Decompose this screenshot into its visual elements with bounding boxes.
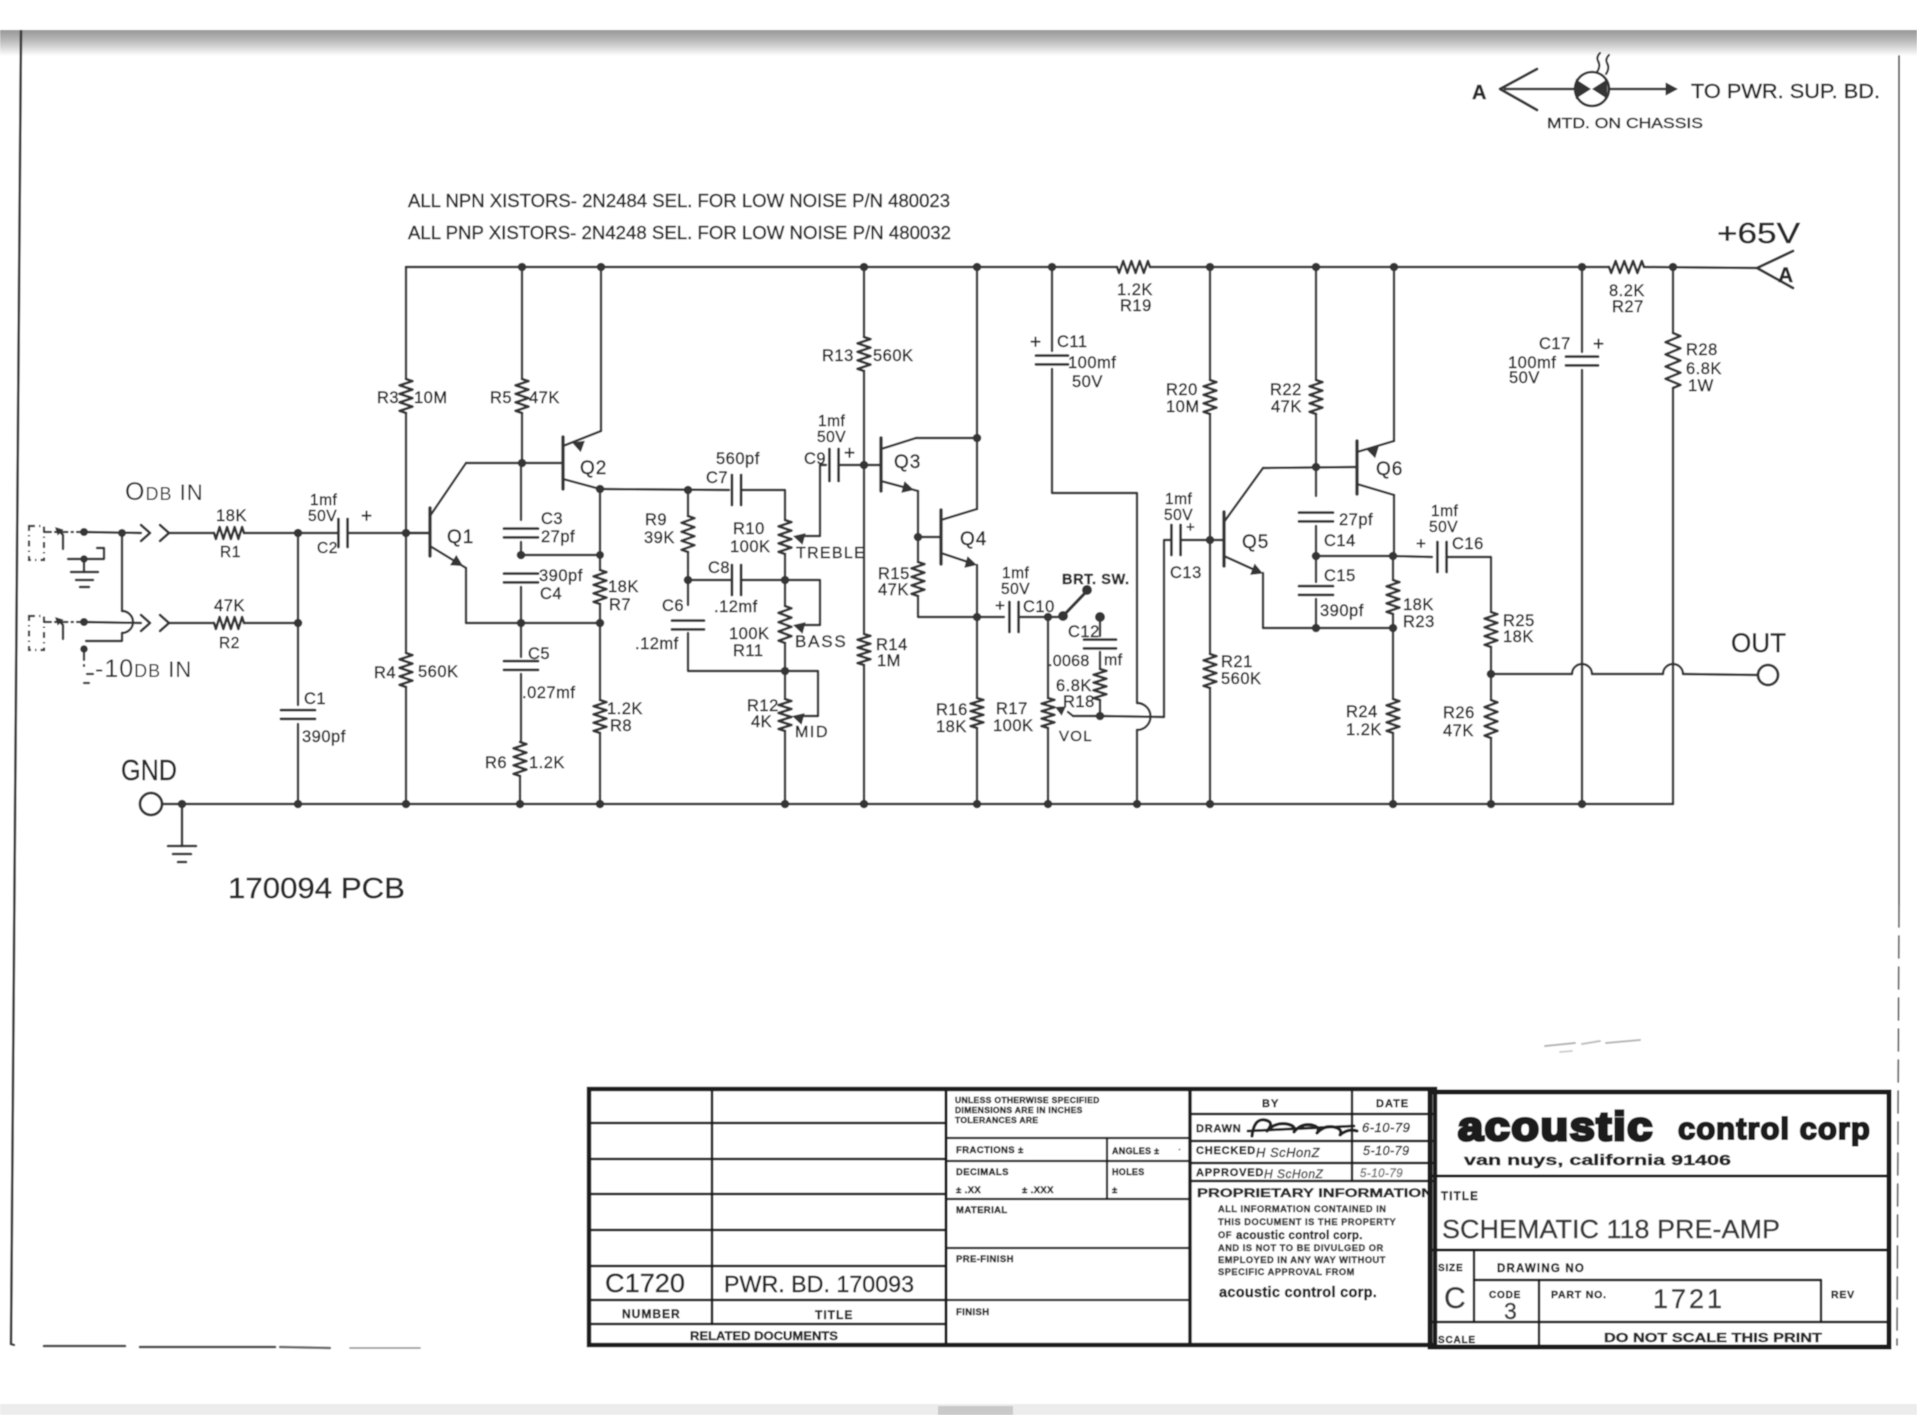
svg-text:MTD. ON CHASSIS: MTD. ON CHASSIS xyxy=(1547,116,1703,132)
svg-text:SPECIFIC APPROVAL FROM: SPECIFIC APPROVAL FROM xyxy=(1218,1267,1355,1277)
svg-text:C14: C14 xyxy=(1324,532,1356,550)
wire bus to R13 xyxy=(863,267,865,337)
svg-text:R3: R3 xyxy=(377,389,399,407)
label R13 value 560K xyxy=(873,347,914,365)
wire Q2 collector to C7/R9 xyxy=(600,489,729,490)
label R8 value 1.2K xyxy=(607,700,643,718)
svg-text:control corp: control corp xyxy=(1678,1111,1871,1146)
resistor R24 (1.2K) xyxy=(1387,699,1400,733)
label R11 value 100K xyxy=(729,625,770,643)
capacitor C17 (100mf) xyxy=(1566,357,1598,366)
svg-text:100K: 100K xyxy=(993,717,1034,735)
svg-text:.0068: .0068 xyxy=(1048,653,1090,670)
label R1 xyxy=(220,544,241,561)
by-date row 3 xyxy=(1190,1162,1435,1164)
wire C3 top to Q2 base node xyxy=(520,463,522,520)
svg-text:C13: C13 xyxy=(1170,564,1202,582)
net +65V bus segment right xyxy=(1644,267,1757,268)
svg-text:TITLE: TITLE xyxy=(815,1308,853,1322)
svg-text:5-10-79: 5-10-79 xyxy=(1360,1168,1403,1180)
junction Q2 collector node xyxy=(596,485,605,494)
svg-text:47K: 47K xyxy=(1443,722,1474,740)
OUT terminal circle xyxy=(1758,665,1778,685)
junction ground bus / R26 xyxy=(1487,800,1496,809)
label Q3 xyxy=(894,452,921,473)
svg-text:39K: 39K xyxy=(644,529,675,547)
svg-text:R22: R22 xyxy=(1270,381,1302,399)
label C1 value 390pf xyxy=(302,728,346,746)
label R10 value 100K xyxy=(730,538,771,556)
label Q2 xyxy=(580,458,607,479)
wire riser to C13 xyxy=(1164,540,1171,717)
wire R10 to C8 node xyxy=(784,554,786,580)
LED DS1 mtd on chassis xyxy=(1575,72,1609,106)
wire R15 top xyxy=(917,537,919,562)
title block divider col3 xyxy=(1188,1089,1192,1345)
label C11 polarity + xyxy=(1030,332,1041,353)
label R27 xyxy=(1612,298,1644,316)
jack J2 body (-10db input) xyxy=(29,616,44,650)
wire bus to Q3 collector node xyxy=(976,267,978,438)
svg-text:H ScHonZ: H ScHonZ xyxy=(1264,1167,1324,1181)
label R21 value 560K xyxy=(1221,670,1262,688)
wire R23 top xyxy=(1392,556,1394,580)
junction C10 / R17 top xyxy=(1044,613,1053,622)
resistor R26 (47K) xyxy=(1485,700,1498,738)
junction top bus / C17 xyxy=(1578,263,1587,272)
svg-text:EMPLOYED IN ANY WAY WITHOUT: EMPLOYED IN ANY WAY WITHOUT xyxy=(1218,1255,1386,1265)
wire Q5 base node to R21 xyxy=(1209,540,1211,654)
label BRT. SW. xyxy=(1062,572,1130,588)
svg-text:± .XX: ± .XX xyxy=(956,1185,981,1196)
svg-text:50V: 50V xyxy=(817,429,846,446)
label R13 xyxy=(822,347,854,365)
wire bus to R28 xyxy=(1672,267,1674,333)
label OUT xyxy=(1731,628,1786,658)
wire C7 to R10 xyxy=(741,490,785,520)
junction Q5 base / R20 / R21 xyxy=(1206,536,1215,545)
capacitor C9 (1mf) xyxy=(829,449,838,481)
svg-text:390pf: 390pf xyxy=(302,728,346,746)
label R28 xyxy=(1686,341,1718,359)
svg-text:+65V: +65V xyxy=(1717,218,1801,250)
signature drawn (S Race) xyxy=(1248,1120,1357,1136)
resistor R6 (1.2K) xyxy=(514,742,527,776)
resistor R5 (47K) xyxy=(516,379,529,413)
title block left row line 2 xyxy=(589,1158,946,1160)
label TITLE (right block) xyxy=(1441,1191,1479,1203)
svg-text:Q5: Q5 xyxy=(1242,532,1269,553)
label C17 value 100mf xyxy=(1508,354,1556,372)
svg-text:47K: 47K xyxy=(214,597,245,615)
tolerance block line under header xyxy=(946,1137,1188,1139)
resistor R18 (6.8K) xyxy=(1094,669,1107,700)
svg-text:5-10-79: 5-10-79 xyxy=(1363,1144,1410,1158)
junction input link node xyxy=(118,529,126,537)
label C16 polarity + xyxy=(1416,534,1426,553)
junction R1/R2/C1 node xyxy=(294,529,303,538)
svg-text:+: + xyxy=(1186,519,1195,536)
label C11 value 50V xyxy=(1072,373,1103,391)
junction Q3 collector / bus drop xyxy=(973,434,982,443)
wire switch to C12 xyxy=(1099,617,1101,636)
label C12 value .0068 xyxy=(1048,653,1090,670)
svg-text:TREBLE: TREBLE xyxy=(796,545,866,562)
capacitor C6 (.12mf) xyxy=(672,621,704,630)
label FINISH xyxy=(956,1307,990,1318)
label R21 xyxy=(1221,653,1253,671)
svg-text:6.8K: 6.8K xyxy=(1686,360,1722,378)
logo control corp xyxy=(1678,1111,1871,1146)
capacitor C13 (1mf) xyxy=(1171,525,1180,555)
junction Q4 emitter / R16 / C10 xyxy=(973,613,982,622)
label R18 xyxy=(1063,693,1095,711)
label C2 value 1mf xyxy=(310,492,338,509)
wire C4 node to R7 line xyxy=(521,554,600,556)
label date checked 5-10-79 xyxy=(1363,1144,1410,1158)
label C4 value 390pf xyxy=(539,567,583,585)
label C13 value 1mf xyxy=(1165,491,1193,508)
label SCALE xyxy=(1438,1335,1476,1346)
svg-text:HOLES: HOLES xyxy=(1112,1167,1145,1177)
svg-text:18K: 18K xyxy=(608,578,639,596)
junction ground bus / R8 xyxy=(596,800,605,809)
label PROPRIETARY INFORMATION xyxy=(1197,1186,1433,1200)
label R22 xyxy=(1270,381,1302,399)
wire C2 to Q1 base xyxy=(348,532,429,534)
svg-text:DO NOT SCALE THIS PRINT: DO NOT SCALE THIS PRINT xyxy=(1604,1330,1822,1345)
label R15 value 47K xyxy=(878,581,909,599)
svg-text:PWR. BD. 170093: PWR. BD. 170093 xyxy=(724,1271,914,1297)
svg-text:6-10-79: 6-10-79 xyxy=(1362,1120,1410,1135)
svg-text:R19: R19 xyxy=(1120,297,1152,315)
svg-text:AND IS NOT TO BE DIVULGED OR: AND IS NOT TO BE DIVULGED OR xyxy=(1218,1243,1384,1253)
svg-text:NUMBER: NUMBER xyxy=(622,1307,681,1321)
svg-text:DECIMALS: DECIMALS xyxy=(956,1167,1009,1178)
wire VOL wiper to C13 riser xyxy=(1100,716,1164,717)
junction J1 sleeve xyxy=(80,555,88,563)
svg-text:1mf: 1mf xyxy=(818,413,846,430)
label HOLES xyxy=(1112,1167,1145,1177)
transistor Q6 (PNP 2N4248) xyxy=(1357,441,1394,495)
wire R22 to collector node xyxy=(1315,414,1317,467)
svg-text:FRACTIONS ±: FRACTIONS ± xyxy=(956,1145,1024,1156)
wire chevrons2 to R2 xyxy=(169,622,214,624)
wire R21 to ground bus xyxy=(1209,688,1211,804)
svg-text:BASS: BASS xyxy=(795,632,848,651)
R12 wiper arm xyxy=(785,671,818,725)
svg-text:+: + xyxy=(844,443,855,464)
label SIZE xyxy=(1438,1263,1463,1274)
label R23 xyxy=(1403,613,1435,631)
wire R16 to ground bus xyxy=(976,728,978,804)
label APPROVED xyxy=(1196,1167,1264,1179)
label TREBLE xyxy=(796,545,866,562)
signature checked (H Schunz) xyxy=(1256,1145,1321,1160)
svg-text:R10: R10 xyxy=(733,520,765,538)
svg-text:R17: R17 xyxy=(996,700,1028,718)
svg-text:R1: R1 xyxy=(220,544,241,561)
svg-text:+: + xyxy=(1030,332,1041,353)
wire J2 tip (dash-dot) xyxy=(44,621,84,623)
svg-text:OF: OF xyxy=(1218,1230,1232,1240)
svg-text:C: C xyxy=(1444,1282,1466,1315)
junction ground bus / R21 xyxy=(1206,800,1215,809)
label date drawn 6-10-79 xyxy=(1362,1120,1410,1135)
capacitor C8 (.12mf) xyxy=(732,565,741,595)
label MID xyxy=(795,724,829,741)
svg-text:50V: 50V xyxy=(1072,373,1103,391)
wire R1 to C2 node xyxy=(244,532,338,534)
svg-text:SIZE: SIZE xyxy=(1438,1263,1463,1274)
label R26 value 47K xyxy=(1443,722,1474,740)
by-date row 1 xyxy=(1190,1113,1435,1115)
resistor R8 (1.2K) xyxy=(594,700,607,733)
wire R11 top xyxy=(784,580,786,606)
svg-text:REV: REV xyxy=(1831,1289,1855,1301)
svg-text:1.2K: 1.2K xyxy=(1346,721,1382,739)
svg-text:1M: 1M xyxy=(877,652,901,670)
svg-text:PROPRIETARY INFORMATION: PROPRIETARY INFORMATION xyxy=(1197,1186,1433,1200)
title block outer border (right) xyxy=(1430,1092,1889,1347)
label R16 xyxy=(936,701,968,719)
resistor R22 (47K) xyxy=(1310,380,1323,414)
svg-text:C7: C7 xyxy=(706,469,728,487)
label C3 value 27pf xyxy=(541,528,575,546)
label R10 xyxy=(733,520,765,538)
junction ground bus / C1 xyxy=(294,800,303,809)
resistor R16 (18K) xyxy=(971,698,984,728)
label R12 xyxy=(747,697,779,715)
label date approved xyxy=(1360,1168,1403,1180)
junction R22 / Q5 collector xyxy=(1312,463,1321,472)
svg-text:C9: C9 xyxy=(804,450,826,468)
right block divider rev xyxy=(1820,1280,1822,1322)
label ANGLES xyxy=(1112,1144,1181,1156)
svg-text:ANGLES ±: ANGLES ± xyxy=(1112,1146,1159,1156)
svg-text:MATERIAL: MATERIAL xyxy=(956,1205,1008,1216)
wire Q1 collector to Q2 base xyxy=(466,462,563,464)
junction ground bus / R24 xyxy=(1389,800,1398,809)
resistor R1 (18K) xyxy=(214,527,244,539)
capacitor C3 (27pf) xyxy=(504,529,538,538)
svg-text:10M: 10M xyxy=(414,389,448,407)
capacitor C4 (390pf) xyxy=(504,574,538,583)
capacitor C14 (27pf) xyxy=(1299,513,1333,522)
wire J1 tip (dash-dot) xyxy=(44,531,84,533)
label GND xyxy=(121,755,177,787)
label C17 value 50V xyxy=(1509,369,1540,387)
label PART NO. xyxy=(1551,1289,1607,1301)
svg-text:+: + xyxy=(1416,534,1426,553)
svg-text:1.2K: 1.2K xyxy=(529,754,565,772)
svg-text:R24: R24 xyxy=(1346,703,1378,721)
wire bus corner to R3 xyxy=(405,267,407,379)
wire R17 pot body xyxy=(1047,617,1049,698)
title block left row line 5 xyxy=(589,1265,946,1267)
wire C4 to emitter wire xyxy=(520,587,522,623)
svg-text:1mf: 1mf xyxy=(1431,503,1459,520)
resistor R13 (560K) xyxy=(858,337,871,371)
svg-text:4K: 4K xyxy=(751,713,772,731)
svg-text:±: ± xyxy=(1112,1185,1117,1196)
signature approved xyxy=(1264,1167,1324,1181)
wire bus to C17 xyxy=(1581,267,1583,352)
label BY xyxy=(1262,1098,1279,1110)
wire OUT (hops over C17 and R28 lines) xyxy=(1491,664,1758,675)
label C17 xyxy=(1539,335,1571,353)
potentiometer R11 (100K BASS) xyxy=(779,606,792,643)
junction R9/C8 node xyxy=(684,576,693,585)
label C10 polarity + xyxy=(995,596,1005,615)
label part no 1721 xyxy=(1653,1284,1725,1314)
label C16 value 1mf xyxy=(1431,503,1459,520)
wire C15 node to Q6 collector line xyxy=(1316,555,1393,557)
label R11 xyxy=(733,642,764,660)
junction ground bus / C11 return xyxy=(1133,800,1142,809)
svg-text:18K: 18K xyxy=(1503,628,1534,646)
jack J2 tip contact xyxy=(55,617,64,639)
capacitor C12 (.0068mf) xyxy=(1084,640,1116,649)
potentiometer R17 (100K VOL) xyxy=(1042,698,1055,728)
wire R6 to ground bus xyxy=(519,776,521,804)
svg-text:H ScHonZ: H ScHonZ xyxy=(1256,1145,1321,1160)
label BASS xyxy=(795,632,848,651)
wire R12 top xyxy=(784,671,786,699)
label C16 value 50V xyxy=(1429,519,1458,536)
label MATERIAL xyxy=(956,1205,1008,1216)
resistor R19 (1.2K in bus) xyxy=(1117,261,1150,273)
capacitor C16 (1mf) xyxy=(1437,542,1446,572)
label R25 value 18K xyxy=(1503,628,1534,646)
resistor R7 (18K) xyxy=(594,570,607,604)
resistor R20 (10M) xyxy=(1204,380,1217,414)
svg-text:CHECKED: CHECKED xyxy=(1196,1145,1256,1157)
svg-text:UNLESS OTHERWISE SPECIFIED: UNLESS OTHERWISE SPECIFIED xyxy=(955,1095,1100,1105)
svg-text:ALL INFORMATION CONTAINED IN: ALL INFORMATION CONTAINED IN xyxy=(1218,1204,1386,1214)
junction ground bus / R12 xyxy=(781,800,790,809)
R10 wiper arm to C9 xyxy=(793,465,826,545)
title block divider col1 xyxy=(711,1089,714,1324)
label C7 value 560pf xyxy=(716,450,760,468)
by-date divider xyxy=(1351,1089,1353,1181)
svg-text:.12mf: .12mf xyxy=(635,635,679,653)
wire R5 to Q2 base node xyxy=(521,413,523,463)
label CODE xyxy=(1489,1290,1521,1301)
R17 wiper arm xyxy=(1055,706,1100,716)
GND terminal circle xyxy=(140,793,162,815)
wire R3 to Q1 base node xyxy=(405,413,407,533)
svg-text:C2: C2 xyxy=(317,540,338,557)
capacitor C5 (.027mf) xyxy=(504,661,538,670)
tolerance block vertical divider xyxy=(1106,1138,1108,1199)
wire node to R8 xyxy=(599,623,601,700)
wire C16 left xyxy=(1393,556,1432,557)
label C1720 xyxy=(605,1268,685,1298)
junction top bus / R28 xyxy=(1669,263,1678,272)
svg-text:R11: R11 xyxy=(733,642,764,660)
svg-text:18K: 18K xyxy=(936,718,967,736)
svg-text:acoustic control corp.: acoustic control corp. xyxy=(1219,1285,1377,1301)
label R8 xyxy=(610,717,632,735)
label code 3 xyxy=(1504,1298,1517,1324)
note all PNP transistors xyxy=(408,222,951,243)
label NUMBER xyxy=(622,1307,681,1321)
net +65V bus segment mid xyxy=(1150,266,1609,269)
svg-text:1mf: 1mf xyxy=(1002,565,1030,582)
junction J1 tip node xyxy=(80,528,88,536)
ground symbol at J1 sleeve xyxy=(71,559,98,587)
svg-text:± .XXX: ± .XXX xyxy=(1022,1185,1054,1196)
svg-text:C6: C6 xyxy=(662,597,684,615)
label size C xyxy=(1444,1282,1466,1315)
wire C13 to Q5 base xyxy=(1181,539,1224,541)
svg-text:ALL PNP XISTORS- 2N4248 SEL. F: ALL PNP XISTORS- 2N4248 SEL. FOR LOW NOI… xyxy=(408,222,951,243)
wire C6 top to C8 node xyxy=(687,580,689,605)
wire R26 top xyxy=(1490,674,1492,700)
label +65V xyxy=(1717,218,1801,250)
junction top bus / C11 xyxy=(1048,263,1057,272)
svg-text:50V: 50V xyxy=(1429,519,1458,536)
svg-text:27pf: 27pf xyxy=(541,528,575,546)
bottom scan smudge xyxy=(938,1406,1013,1415)
label R17 value 100K xyxy=(993,717,1034,735)
svg-text:47K: 47K xyxy=(878,581,909,599)
svg-text:100K: 100K xyxy=(730,538,771,556)
label R12 value 4K xyxy=(751,713,772,731)
label C1 xyxy=(304,690,326,708)
svg-text:MID: MID xyxy=(795,724,829,741)
wire R12 to ground bus xyxy=(784,731,786,804)
label Q1 xyxy=(447,527,474,548)
wire bus to R20 xyxy=(1209,267,1211,380)
title block left row line 7 xyxy=(589,1323,946,1325)
svg-text:GND: GND xyxy=(121,755,177,787)
junction top bus / R20 xyxy=(1206,263,1215,272)
svg-text:1mf: 1mf xyxy=(310,492,338,509)
wire Q5 emitter run right xyxy=(1263,627,1393,629)
wire J2 to chevrons xyxy=(84,622,141,623)
resistor R23 (18K) xyxy=(1387,580,1400,614)
label 0DB IN xyxy=(125,478,204,506)
junction J2 switch stub xyxy=(80,645,88,653)
junction Q2 base / R5 / C3 xyxy=(518,459,527,468)
label Q6 xyxy=(1376,459,1403,480)
label C17 polarity + xyxy=(1593,334,1604,355)
jack J1 sleeve contact xyxy=(68,548,104,559)
label RELATED DOCUMENTS xyxy=(690,1329,838,1343)
label C13 polarity + xyxy=(1186,519,1195,536)
wire R24 to ground bus xyxy=(1392,733,1394,804)
label TITLE (left block) xyxy=(815,1308,853,1322)
svg-text:R5: R5 xyxy=(490,389,512,407)
svg-text:OUT: OUT xyxy=(1731,628,1786,658)
resistor R28 (6.8K 1W) xyxy=(1666,333,1681,388)
junction Q3 base / R13 / R14 xyxy=(860,461,869,470)
resistor R27 (8.2K in bus) xyxy=(1609,261,1644,273)
svg-text:DRAWING NO: DRAWING NO xyxy=(1497,1263,1585,1275)
svg-text:390pf: 390pf xyxy=(1320,602,1364,620)
capacitor C10 (1mf) xyxy=(1009,602,1018,632)
junction J2 tip node xyxy=(80,618,88,626)
label VOL xyxy=(1059,728,1093,745)
connector chevrons input 2 xyxy=(141,615,169,631)
wire R26 to ground bus xyxy=(1490,738,1492,804)
svg-text:DIMENSIONS ARE IN INCHES: DIMENSIONS ARE IN INCHES xyxy=(955,1105,1083,1115)
label C9 value 50V xyxy=(817,429,846,446)
label C9 xyxy=(804,450,826,468)
wire C14 top xyxy=(1315,467,1317,496)
